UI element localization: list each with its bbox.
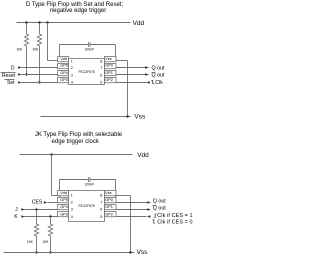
resistor R2 10K pull-up on Set	[32, 24, 41, 83]
svg-text:K: K	[14, 214, 18, 220]
wire Vdd rail circuit 2	[20, 154, 133, 156]
wire cap left segment circuit 2	[60, 179, 89, 181]
wire J to GP4	[25, 209, 58, 211]
wire GP1 to Qbar out	[116, 74, 149, 76]
junction R1 to Reset line	[25, 73, 27, 75]
wire cap right segment circuit 1	[91, 44, 116, 46]
arrow input Reset	[18, 73, 22, 75]
svg-text:Q out: Q out	[153, 206, 166, 212]
svg-text:GP3: GP3	[60, 77, 68, 82]
svg-text:5: 5	[100, 215, 102, 219]
svg-text:10K: 10K	[16, 48, 23, 52]
svg-text:Vdd: Vdd	[133, 20, 145, 27]
wire Clk input circuit 2	[116, 216, 147, 218]
wire cap loop right to Vss pin circuit 2	[115, 180, 117, 196]
capacitor C2 100nF	[84, 177, 94, 186]
svg-text:10K: 10K	[32, 48, 39, 52]
svg-text:negative edge trigger: negative edge trigger	[50, 8, 106, 14]
junction R2 top	[38, 21, 40, 23]
junction R4 to K line	[49, 215, 51, 217]
overline Qbar circuit 2	[153, 205, 157, 207]
svg-text:CES: CES	[32, 200, 43, 206]
wire Set to GP3	[22, 82, 58, 84]
wire Vdd rail circuit 1	[17, 22, 131, 24]
wire Vss pin to drop circuit 1	[116, 60, 128, 62]
svg-text:7: 7	[100, 200, 102, 204]
wire cap loop right to Vss pin circuit 1	[115, 45, 117, 61]
svg-text:PIC12F675: PIC12F675	[78, 204, 94, 208]
arrow input J	[21, 208, 25, 210]
junction cap loop / Vss pin circuit 1	[114, 59, 116, 61]
wire cap loop left circuit 2	[59, 180, 61, 196]
svg-text:Reset: Reset	[2, 73, 16, 79]
svg-text:Vss: Vss	[134, 114, 146, 121]
svg-text:5: 5	[100, 81, 102, 85]
wire GP1 to Qbar out circuit 2	[116, 209, 148, 211]
svg-text:2: 2	[71, 200, 73, 204]
arrow Clk input circuit 1	[146, 81, 150, 83]
svg-text:7: 7	[100, 66, 102, 70]
svg-text:GP4: GP4	[60, 70, 69, 75]
wire cap left segment circuit 1	[60, 44, 89, 46]
junction Vss drop to rail circuit 1	[126, 115, 128, 117]
wire GP0 to Q out circuit 2	[116, 202, 148, 204]
arrow input Set	[18, 81, 22, 83]
overline Qbar	[152, 72, 156, 74]
svg-text:Q out: Q out	[153, 199, 166, 205]
wire K to GP3	[25, 216, 58, 218]
falling edge symbol Clk circuit 1	[151, 80, 154, 83]
junction Vdd feed circuit 2	[50, 153, 52, 155]
wire Vss drop circuit 1	[127, 61, 129, 117]
svg-text:GP2: GP2	[105, 77, 113, 82]
svg-text:4: 4	[71, 81, 73, 85]
junction R3 bottom	[35, 251, 37, 253]
svg-text:Vdd: Vdd	[60, 56, 67, 61]
wire Vss drop circuit 2	[130, 196, 132, 253]
arrow Q out circuit 2	[147, 201, 151, 203]
junction R1 top	[25, 21, 27, 23]
wire D to GP5	[22, 67, 58, 69]
junction Vss drop to rail circuit 2	[129, 251, 131, 253]
svg-text:2: 2	[71, 66, 73, 70]
arrow input K	[21, 215, 25, 217]
svg-text:3: 3	[71, 208, 73, 212]
wire Vdd feed to pin 1 circuit 2	[52, 195, 58, 197]
wire Vdd feed vertical circuit 1	[47, 23, 49, 61]
svg-text:Clk if CES = 0: Clk if CES = 0	[157, 219, 192, 225]
svg-text:GP2: GP2	[105, 211, 113, 216]
resistor R1 10K pull-up on Reset	[16, 24, 28, 76]
wire Vdd feed to pin 1 circuit 1	[48, 60, 58, 62]
svg-text:1: 1	[71, 194, 73, 198]
svg-text:Clk: Clk	[155, 80, 163, 86]
svg-text:8: 8	[100, 194, 102, 198]
svg-text:J: J	[15, 207, 18, 213]
wire cap loop left circuit 1	[59, 45, 61, 61]
svg-text:4: 4	[71, 215, 73, 219]
svg-text:GP5: GP5	[60, 63, 68, 68]
wire Vss rail circuit 1	[41, 116, 131, 118]
wire Vdd feed vertical circuit 2	[51, 155, 53, 196]
arrow Clk input circuit 2	[147, 215, 151, 217]
svg-text:10K: 10K	[42, 240, 49, 244]
IC U1 PIC12F675	[58, 56, 117, 85]
svg-text:edge trigger clock: edge trigger clock	[52, 139, 100, 145]
wire CES to GP5	[48, 202, 58, 204]
arrow Qbar out circuit 2	[147, 208, 151, 210]
svg-text:D Type Flip Flop with Set and: D Type Flip Flop with Set and Reset;	[26, 2, 124, 8]
svg-text:Q out: Q out	[152, 65, 165, 71]
wire Vss rail circuit 2	[4, 252, 135, 254]
resistor R3 10K pull-down on J	[27, 209, 39, 252]
junction cap loop / Vdd pin circuit 1	[58, 59, 60, 61]
resistor R4 10K pull-down on K	[42, 217, 52, 253]
svg-text:GP4: GP4	[60, 204, 69, 209]
svg-text:D: D	[11, 65, 15, 71]
svg-text:100nF: 100nF	[84, 182, 94, 186]
svg-text:GP1: GP1	[105, 204, 113, 209]
svg-text:GP1: GP1	[105, 70, 113, 75]
svg-text:3: 3	[71, 73, 73, 77]
junction R2 to Set line	[38, 81, 40, 83]
junction cap loop / Vdd pin circuit 2	[58, 194, 60, 196]
wire Clk input circuit 1	[116, 82, 147, 84]
svg-text:6: 6	[100, 73, 102, 77]
wire Vss pin to drop circuit 2	[116, 195, 131, 197]
arrow Qbar out	[145, 73, 149, 75]
svg-text:PIC12F675: PIC12F675	[78, 70, 94, 74]
svg-text:Clk if CES = 1: Clk if CES = 1	[157, 213, 192, 219]
svg-text:Vdd: Vdd	[137, 152, 149, 159]
svg-text:GP5: GP5	[60, 197, 68, 202]
svg-text:Vss: Vss	[105, 190, 112, 195]
arrow input D	[18, 66, 22, 68]
svg-text:JK Type Flip Flop with selecta: JK Type Flip Flop with selectable	[35, 132, 123, 138]
arrow input CES	[44, 201, 48, 203]
svg-text:6: 6	[100, 208, 102, 212]
svg-text:100nF: 100nF	[84, 47, 94, 51]
junction cap loop / Vss pin circuit 2	[114, 194, 116, 196]
wire cap right segment circuit 2	[91, 179, 116, 181]
svg-text:10K: 10K	[27, 240, 34, 244]
falling edge symbol Clk CES=0	[152, 220, 155, 223]
overline Reset	[1, 72, 16, 74]
junction R4 bottom	[49, 251, 51, 253]
overline Set	[5, 79, 15, 81]
svg-text:GP3: GP3	[60, 211, 68, 216]
svg-text:GP0: GP0	[105, 63, 114, 68]
junction R3 to J line	[35, 208, 37, 210]
wire Reset to GP4	[22, 74, 58, 76]
capacitor C1 100nF	[84, 42, 94, 51]
rising edge symbol Clk CES=1	[154, 214, 157, 217]
svg-text:Q out: Q out	[152, 73, 165, 79]
svg-text:Vss: Vss	[137, 249, 149, 256]
arrow Q out	[145, 66, 149, 68]
wire GP0 to Q out	[116, 67, 149, 69]
svg-text:8: 8	[100, 59, 102, 63]
junction Vdd feed circuit 1	[46, 21, 48, 23]
svg-text:1: 1	[71, 59, 73, 63]
svg-text:Vss: Vss	[105, 56, 112, 61]
svg-text:GP0: GP0	[105, 197, 114, 202]
svg-text:Vdd: Vdd	[60, 190, 67, 195]
svg-text:Set: Set	[7, 80, 15, 86]
IC U2 PIC12F675	[58, 190, 117, 221]
